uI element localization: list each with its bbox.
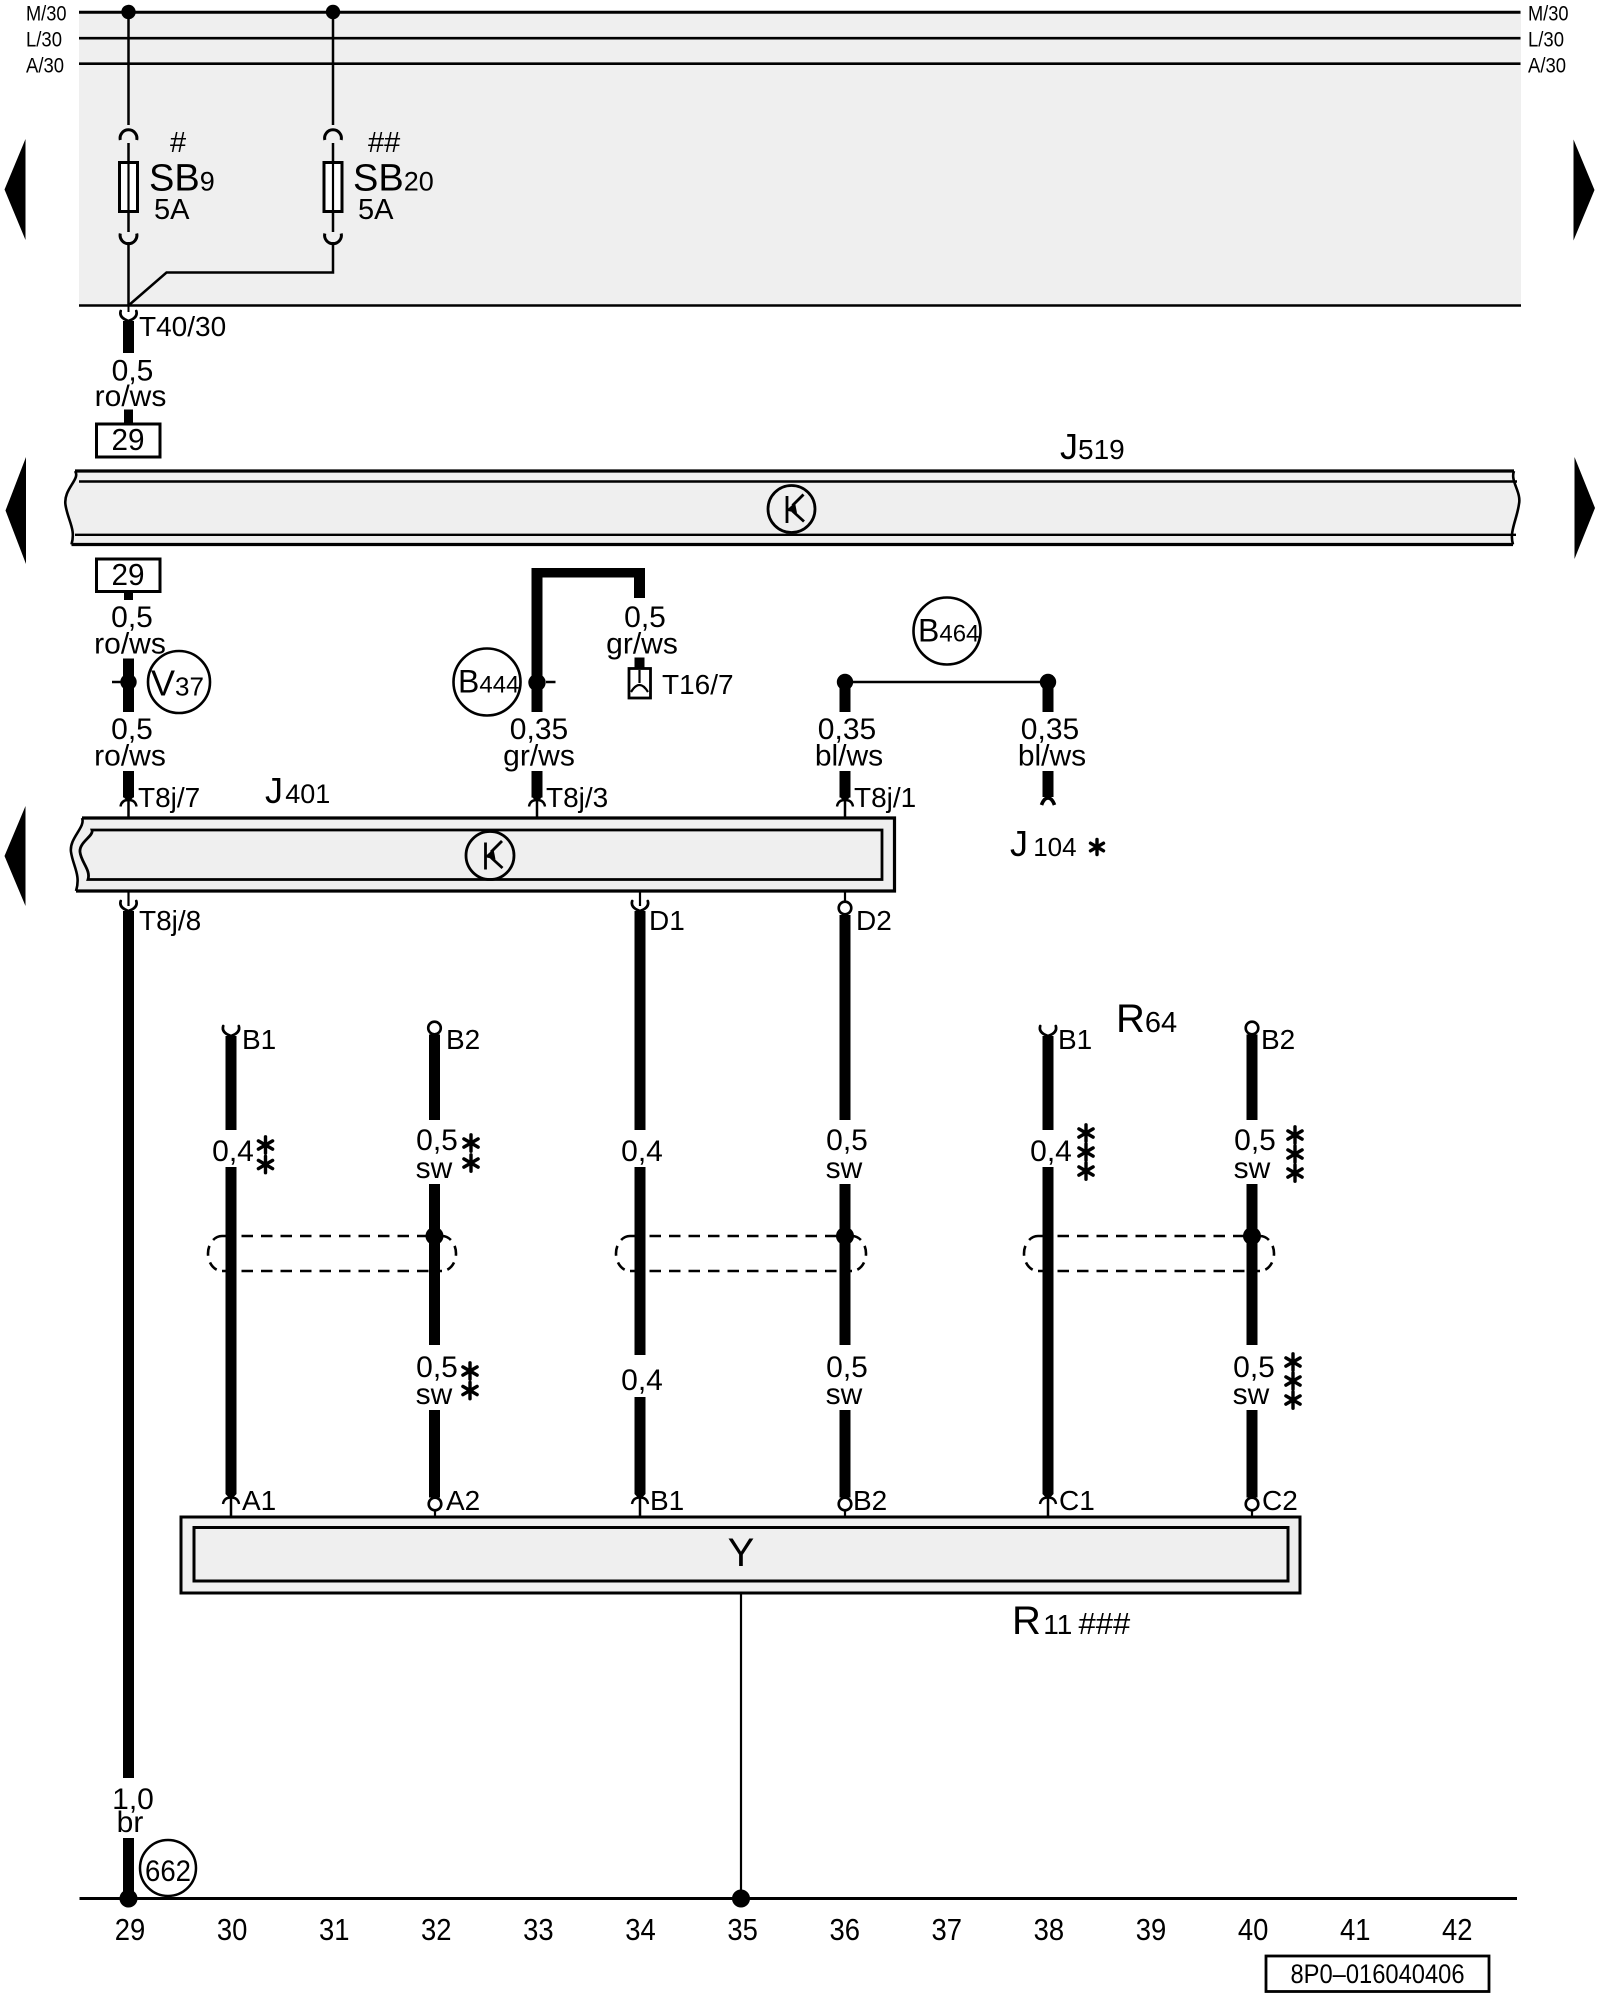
fuse SB9 9 5A (120, 130, 138, 244)
svg-text:R 11 ###: R 11 ### (1012, 1599, 1131, 1643)
ground rail / track line (80, 1897, 1518, 1900)
continuation arrow top right (1574, 140, 1595, 241)
svg-text:29: 29 (112, 422, 145, 457)
svg-text:ro/ws: ro/ws (94, 628, 166, 661)
svg-text:#: # (170, 127, 186, 159)
continuation arrow top left (5, 139, 26, 240)
footnote ** (left pair B1) (258, 1137, 272, 1153)
terminal T40/30 (120, 306, 226, 343)
wire 0,5 ro/ws (V37 node to T8j/7) (94, 713, 166, 798)
svg-text:29: 29 (112, 557, 145, 592)
track numbers 29-42 (115, 1912, 1473, 1947)
svg-text:T8j/7: T8j/7 (138, 782, 200, 813)
pin A1 of R11 (223, 1485, 276, 1528)
svg-text:Y: Y (728, 1531, 755, 1575)
pin T8j/1 into J401 (837, 782, 916, 830)
control unit J519 (onboard supply control unit band) (65, 471, 1519, 545)
svg-text:J 401: J 401 (265, 770, 330, 811)
junction node B444 tap (528, 674, 555, 691)
wire 0,5 ro/ws (T40/30 to terminal 29) (95, 321, 167, 424)
pin A2 of R11 (429, 1485, 481, 1528)
pin D2 out of J401 (839, 891, 892, 936)
svg-text:C1: C1 (1059, 1485, 1095, 1516)
connection B444 (454, 649, 521, 716)
svg-text:A2: A2 (446, 1485, 480, 1516)
diagram number box 8P0-016040406 (1266, 1956, 1489, 1992)
bus bar A/30 (26, 55, 1566, 78)
svg-text:42: 42 (1442, 1912, 1473, 1947)
footnote *** (right pair B1) (1079, 1125, 1093, 1141)
connector T16/7 (629, 658, 734, 701)
svg-text:T8j/8: T8j/8 (139, 905, 201, 936)
connection B464 (914, 598, 981, 665)
continuation arrow J401 left (5, 806, 26, 906)
internal connection K in J519 (768, 486, 815, 533)
svg-text:sw: sw (416, 1378, 453, 1411)
splice connector sleeve 2 (dashed) (616, 1236, 866, 1271)
wire 0,5 ro/ws (29 to V37 node) (94, 601, 166, 712)
wire bridge from J519 to T8j/3 and T16/7 (0,5 gr/ws) (532, 568, 678, 712)
svg-text:36: 36 (829, 1912, 860, 1947)
svg-text:L/30: L/30 (26, 29, 62, 52)
svg-text:39: 39 (1136, 1912, 1167, 1947)
continuation arrow J519 right (1575, 457, 1596, 559)
splice connector sleeve 3 (dashed) (1024, 1236, 1274, 1271)
fuse panel band (battery/fuse area) (79, 12, 1521, 306)
svg-text:ro/ws: ro/ws (94, 740, 166, 773)
svg-text:sw: sw (826, 1378, 863, 1411)
svg-text:gr/ws: gr/ws (606, 628, 678, 661)
svg-text:33: 33 (523, 1912, 554, 1947)
splice connector sleeve 1 (dashed) (208, 1236, 456, 1271)
wire 0,5 sw (B2 right pair R64) (1233, 1022, 1276, 1498)
aerial amplifier R11 (181, 1517, 1300, 1593)
junction node B464 left (837, 674, 853, 690)
junction node in sleeve 3 (1243, 1227, 1261, 1245)
svg-text:8P0–016040406: 8P0–016040406 (1291, 1959, 1465, 1989)
svg-text:M/30: M/30 (26, 3, 67, 26)
svg-text:T8j/3: T8j/3 (546, 782, 608, 813)
svg-text:sw: sw (1234, 1152, 1271, 1185)
svg-text:T40/30: T40/30 (139, 311, 226, 342)
wire 0,4 (B1 left pair) (212, 1026, 254, 1494)
continuation arrow J519 left (6, 457, 27, 564)
svg-text:35: 35 (727, 1912, 758, 1947)
footnote *** lower (right pair B2) (1286, 1354, 1300, 1370)
svg-text:B1: B1 (242, 1024, 276, 1055)
wire 0,4 (B1 right pair R64) (1030, 1026, 1072, 1494)
svg-text:B1: B1 (650, 1485, 684, 1516)
pin T8j/7 into J401 (121, 782, 201, 830)
svg-text:31: 31 (319, 1912, 350, 1947)
svg-text:34: 34 (625, 1912, 656, 1947)
pin D1 out of J401 (632, 891, 685, 936)
svg-text:32: 32 (421, 1912, 452, 1947)
svg-text:0,4: 0,4 (621, 1135, 663, 1168)
svg-text:37: 37 (932, 1912, 963, 1947)
wire 0,5 sw (D2 to B2 middle) (826, 915, 868, 1498)
terminal 29 (into J519) (97, 422, 161, 457)
svg-text:C2: C2 (1262, 1485, 1298, 1516)
svg-text:29: 29 (115, 1912, 146, 1947)
wire 0,35 bl/ws (to T8j/1) (815, 682, 883, 798)
svg-text:J 104: J 104 (1010, 823, 1077, 864)
wire Y to track 35 (740, 1593, 742, 1898)
junction node on M/30 (SB9) (121, 5, 135, 19)
svg-text:5A: 5A (154, 194, 190, 226)
internal connection K in J401 (466, 832, 514, 880)
svg-text:40: 40 (1238, 1912, 1269, 1947)
svg-text:B2: B2 (853, 1485, 887, 1516)
svg-text:T8j/1: T8j/1 (854, 782, 916, 813)
junction on ground rail (35) (732, 1890, 750, 1908)
svg-text:A/30: A/30 (1528, 55, 1566, 78)
pin C1 of R11 (1040, 1485, 1095, 1528)
wire: SB20 output to T40/30 (129, 242, 334, 306)
control unit J401 (multifunction steering wheel) (71, 818, 895, 891)
svg-text:5A: 5A (358, 194, 394, 226)
pin T8j/8 out of J401 (120, 891, 201, 936)
junction on ground rail (29) (120, 1890, 138, 1908)
svg-text:0,4: 0,4 (1030, 1135, 1072, 1168)
junction node in sleeve 1 (426, 1227, 444, 1245)
fuse SB20 20 5A (324, 130, 342, 244)
pin C2 of R11 (1246, 1485, 1298, 1528)
bus bar L/30 (26, 29, 1564, 52)
svg-text:##: ## (368, 127, 400, 159)
pin B2 of R11 (839, 1485, 888, 1528)
footnote ** lower (left pair B2) (463, 1363, 477, 1379)
svg-text:ro/ws: ro/ws (95, 380, 167, 413)
svg-text:0,4: 0,4 (621, 1364, 663, 1397)
svg-text:sw: sw (826, 1152, 863, 1185)
svg-text:J519: J519 (1060, 426, 1125, 467)
svg-text:T16/7: T16/7 (662, 669, 734, 700)
footnote ** upper (left pair B2) (464, 1135, 478, 1151)
svg-text:R64: R64 (1116, 997, 1177, 1041)
svg-text:B2: B2 (1261, 1024, 1295, 1055)
svg-text:A1: A1 (242, 1485, 276, 1516)
svg-text:sw: sw (416, 1152, 453, 1185)
junction node B464 right (1040, 674, 1056, 690)
footnote asterisk for J104 (1091, 840, 1104, 855)
wire: SB9 feed from M/30 (127, 12, 130, 126)
pin T8j/3 into J401 (529, 782, 608, 830)
bus bar M/30 (26, 3, 1569, 26)
footnote *** upper (right pair B2) (1288, 1127, 1302, 1143)
terminal 29 (below J519) (97, 557, 161, 600)
svg-text:gr/ws: gr/ws (503, 740, 575, 773)
wire 0,4 (D1 to B1 middle) (621, 911, 663, 1494)
svg-text:bl/ws: bl/ws (815, 740, 883, 773)
svg-text:30: 30 (217, 1912, 248, 1947)
junction node in sleeve 2 (836, 1227, 854, 1245)
svg-text:br: br (117, 1806, 144, 1839)
svg-text:662: 662 (145, 1855, 191, 1888)
svg-text:B2: B2 (446, 1024, 480, 1055)
terminal to J104 (ABS control unit) (1010, 798, 1077, 864)
junction node on M/30 (SB20) (326, 5, 340, 19)
svg-text:A/30: A/30 (26, 55, 64, 78)
svg-text:D1: D1 (649, 905, 685, 936)
svg-text:bl/ws: bl/ws (1018, 740, 1086, 773)
svg-text:M/30: M/30 (1528, 3, 1569, 26)
wire: SB9 output to T40/30 (127, 242, 130, 306)
blower motor V37 (148, 651, 210, 713)
junction node V37 tap (112, 674, 137, 690)
pin B1 of R11 (632, 1485, 684, 1528)
label R11### (1012, 1599, 1131, 1643)
wire 0,35 bl/ws (to J104) (1018, 682, 1086, 797)
svg-text:B1: B1 (1058, 1024, 1092, 1055)
ground connection 662 (140, 1840, 196, 1896)
svg-text:L/30: L/30 (1528, 29, 1564, 52)
wire pair link under B464 (845, 681, 1048, 684)
wire: SB20 feed from M/30 (332, 12, 335, 126)
wire 1,0 br (T8j/8 to ground 662) (112, 911, 154, 1898)
svg-text:0,4: 0,4 (212, 1135, 254, 1168)
svg-text:38: 38 (1034, 1912, 1065, 1947)
svg-text:41: 41 (1340, 1912, 1371, 1947)
wire 0,5 sw (B2 left pair) (416, 1022, 458, 1498)
svg-text:sw: sw (1233, 1378, 1270, 1411)
svg-text:D2: D2 (856, 905, 892, 936)
wire 0,35 gr/ws (to T8j/3) (503, 713, 575, 798)
